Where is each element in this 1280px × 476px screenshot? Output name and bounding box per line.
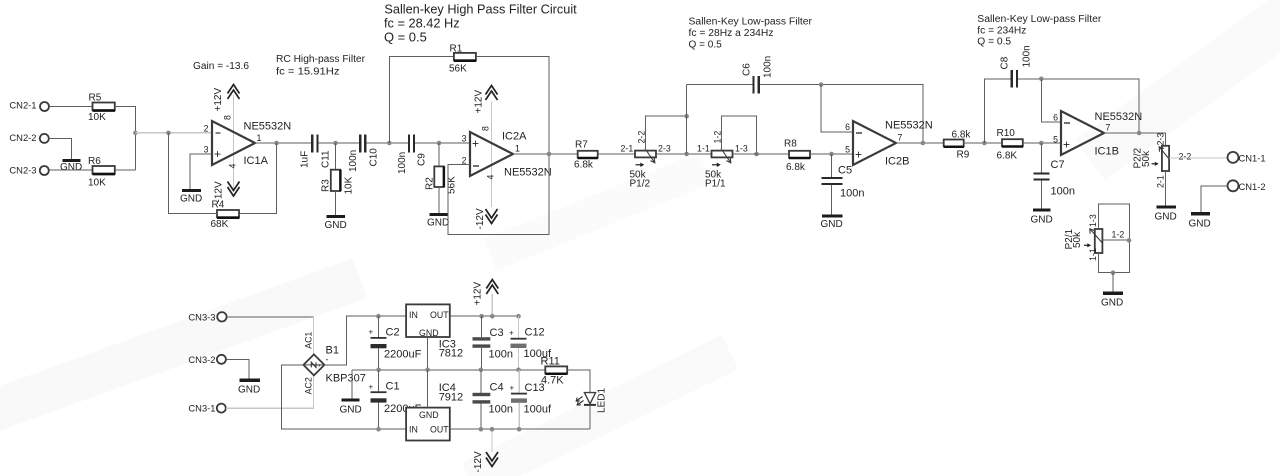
resistor R1 56K: [449, 44, 476, 75]
wire P2/2 bottom to ground: [1165, 171, 1167, 207]
node C13 bottom: [517, 427, 522, 432]
node C1/C2 mid junction: [376, 368, 381, 373]
svg-text:Q = 0.5: Q = 0.5: [689, 40, 723, 51]
svg-text:7: 7: [1106, 123, 1111, 133]
svg-text:C1: C1: [386, 381, 400, 393]
svg-text:Sallen-Key Low-pass Filter: Sallen-Key Low-pass Filter: [689, 17, 813, 28]
capacitor C12 100uf: [509, 327, 552, 361]
ground (R3): [325, 217, 347, 232]
svg-text:fc = 234Hz: fc = 234Hz: [977, 26, 1026, 37]
wire mid ground rail: [352, 369, 545, 371]
svg-text:C2: C2: [386, 327, 400, 339]
svg-text:R3: R3: [321, 179, 332, 192]
svg-text:R5: R5: [89, 93, 102, 104]
svg-text:LED1: LED1: [597, 388, 608, 413]
connector CN2-3: [9, 165, 48, 176]
svg-text:OUT: OUT: [430, 310, 449, 320]
node C6 tap: [684, 152, 689, 157]
connector CN1-2: [1228, 180, 1266, 192]
svg-text:fc = 28Hz a 234Hz: fc = 28Hz a 234Hz: [689, 28, 774, 39]
svg-text:P1/1: P1/1: [705, 179, 726, 190]
svg-text:IC1B: IC1B: [1095, 146, 1119, 158]
resistor R9 6.8k: [944, 130, 972, 161]
svg-text:CN1-2: CN1-2: [1239, 181, 1266, 192]
svg-text:+: +: [472, 137, 479, 151]
resistor R10 6.8K: [997, 128, 1024, 162]
svg-text:+12V: +12V: [474, 90, 485, 114]
wire C2 stem top: [377, 316, 379, 337]
wire IC2B output: [896, 142, 944, 144]
svg-text:50k: 50k: [1072, 231, 1083, 248]
svg-text:C3: C3: [490, 327, 504, 339]
svg-text:6.8k: 6.8k: [574, 160, 594, 171]
ground (C5): [821, 216, 843, 230]
svg-text:1: 1: [515, 144, 520, 154]
wire bridge minus to bottom rail: [282, 365, 407, 429]
wire C6 to IC2B output loop: [760, 85, 923, 143]
svg-text:R6: R6: [88, 156, 101, 167]
svg-text:R7: R7: [575, 140, 588, 151]
wire top rail right: [450, 315, 519, 317]
svg-text:1uF: 1uF: [300, 151, 311, 168]
connector CN3-2: [188, 354, 225, 365]
wire C12 stem: [518, 316, 520, 338]
node IC2A output: [547, 152, 552, 157]
wire C7 to ground: [1040, 181, 1042, 210]
wire C4 to bottom rail: [480, 404, 482, 430]
svg-text:10K: 10K: [344, 176, 355, 194]
node IC2B output: [921, 141, 926, 146]
svg-text:Q = 0.5: Q = 0.5: [384, 30, 427, 45]
wire P2/1 to ground: [1112, 273, 1114, 293]
wire bottom rail right: [450, 428, 590, 430]
potentiometer P1/1 50k: [697, 131, 748, 190]
wire bridge plus to top rail: [324, 316, 406, 365]
potentiometer P1/2 50k: [621, 131, 671, 190]
svg-text:1-2: 1-2: [713, 131, 723, 144]
wire C8 to IC1B output loop: [1018, 79, 1139, 133]
node R2 tap: [437, 141, 442, 146]
wire CN3-2 to ground: [226, 359, 249, 380]
wire LED1 to bottom rail: [589, 405, 591, 429]
wire P2/1 loop: [1099, 204, 1130, 273]
wire P1/1 to R8: [733, 153, 790, 155]
wire CN3-1 to bridge: [226, 375, 314, 408]
node IC GND junction: [425, 368, 430, 373]
node C12/C13 mid junction: [516, 368, 521, 373]
wire R3 to ground: [335, 191, 337, 216]
svg-text:+: +: [317, 363, 321, 370]
svg-text:4: 4: [486, 175, 496, 180]
svg-text:-12V: -12V: [475, 208, 486, 229]
svg-text:3: 3: [204, 145, 209, 155]
node feedback tap: [166, 131, 171, 136]
svg-text:50k: 50k: [1141, 150, 1152, 167]
svg-text:fc = 15.91Hz: fc = 15.91Hz: [276, 67, 340, 78]
wire C1 to bottom rail: [378, 403, 380, 430]
wire IC1A pin3 to ground: [190, 154, 212, 190]
svg-text:CN2-3: CN2-3: [9, 165, 36, 176]
svg-text:10K: 10K: [88, 112, 106, 123]
svg-text:2-3: 2-3: [1156, 133, 1166, 146]
svg-text:+: +: [214, 147, 221, 161]
power +12V (IC1A): [213, 85, 240, 112]
regulator IC3 7812: [406, 304, 463, 359]
svg-text:1: 1: [257, 133, 262, 143]
connector CN2-1: [9, 100, 49, 112]
svg-text:AC2: AC2: [304, 377, 314, 394]
svg-text:7812: 7812: [439, 348, 463, 360]
svg-text:IC2A: IC2A: [502, 131, 527, 143]
svg-text:Q = 0.5: Q = 0.5: [977, 37, 1011, 48]
node C2 top: [376, 314, 381, 319]
wire R8 to IC2B pin5: [810, 153, 853, 155]
wire CN2-1 to R5: [49, 106, 93, 108]
svg-text:100n: 100n: [348, 150, 359, 172]
svg-text:B1: B1: [326, 345, 339, 357]
connector CN2-2: [9, 132, 48, 143]
wire R6 to junction: [115, 169, 136, 171]
svg-text:GND: GND: [821, 219, 843, 230]
node wiper loop junction: [684, 114, 689, 119]
node C3/C4 mid junction: [479, 368, 484, 373]
svg-text:CN3-1: CN3-1: [188, 403, 215, 414]
node C1 bottom: [376, 427, 381, 432]
node P2/1 wiper junction: [1127, 238, 1132, 243]
connector CN1-1: [1228, 152, 1266, 164]
node C7 tap: [1039, 141, 1044, 146]
wire feedback loop to R4: [239, 143, 277, 214]
power -12V (IC1A): [214, 181, 240, 202]
wire C6 branch vertical: [686, 85, 688, 154]
capacitor C4 100n: [473, 382, 513, 416]
svg-text:Sallen-Key Low-pass Filter: Sallen-Key Low-pass Filter: [977, 14, 1102, 25]
svg-text:R11: R11: [541, 356, 560, 368]
wire node to C7: [1040, 143, 1042, 172]
svg-text:IN: IN: [409, 310, 418, 320]
capacitor C11 1uF: [300, 135, 332, 169]
wire CN2-2 to ground: [49, 138, 72, 159]
svg-text:6: 6: [1053, 113, 1058, 123]
power -12V (PSU): [473, 429, 498, 472]
op-amp IC1B: [1053, 111, 1142, 158]
wire CN3-3 to bridge: [227, 316, 314, 318]
wire pin6 branch: [821, 85, 853, 132]
ground (C7): [1031, 210, 1053, 226]
svg-text:100n: 100n: [840, 188, 864, 200]
svg-text:4: 4: [228, 164, 238, 169]
node R3 tap: [333, 141, 338, 146]
svg-text:IC1A: IC1A: [244, 155, 269, 167]
svg-text:Sallen-key High Pass Filter Ci: Sallen-key High Pass Filter Circuit: [384, 2, 577, 17]
svg-text:1-2: 1-2: [1112, 230, 1125, 240]
svg-text:AC1: AC1: [304, 332, 314, 349]
power +12V (IC2A): [474, 86, 498, 114]
svg-text:100n: 100n: [397, 152, 408, 174]
wire R7 to P1/2: [598, 153, 635, 155]
title: Sallen-key High Pass Filter Circuit: [384, 2, 577, 45]
wire R1 to IC2A output node: [476, 57, 549, 154]
resistor R5: [88, 93, 115, 124]
node C12 top: [516, 314, 521, 319]
svg-text:NE5532N: NE5532N: [885, 120, 933, 132]
wire IC4 GND stem: [427, 370, 429, 408]
svg-text:2: 2: [204, 124, 209, 134]
node IC1B output: [1137, 131, 1142, 136]
svg-text:IC2B: IC2B: [885, 156, 909, 168]
capacitor C10 100n: [348, 135, 380, 173]
svg-text:GND: GND: [419, 328, 439, 338]
svg-text:1-3: 1-3: [735, 144, 748, 154]
svg-text:+: +: [369, 383, 374, 392]
node C8 tap: [982, 141, 987, 146]
node C5 tap: [829, 152, 834, 157]
svg-text:C11: C11: [321, 150, 332, 168]
power +12V (PSU): [473, 280, 499, 317]
svg-text:NE5532N: NE5532N: [244, 121, 292, 133]
wire C12 to mid rail: [518, 348, 520, 370]
wire pin6 branch: [1041, 79, 1061, 122]
wire CN1-2 to ground: [1201, 186, 1228, 213]
svg-text:100uf: 100uf: [524, 404, 552, 416]
svg-text:8: 8: [223, 115, 233, 120]
connector CN3-1: [188, 403, 225, 414]
svg-text:C12: C12: [525, 327, 545, 339]
svg-text:1-1: 1-1: [697, 144, 710, 154]
svg-text:+: +: [369, 328, 374, 337]
wire bridge AC1 vertical: [313, 317, 315, 355]
op-amp IC2A: [462, 102, 552, 208]
svg-text:GND: GND: [1189, 219, 1211, 230]
svg-text:GND: GND: [1031, 215, 1053, 226]
wire C8 branch: [984, 79, 1010, 143]
op-amp IC2B: [845, 120, 933, 168]
svg-text:2-2: 2-2: [1179, 152, 1192, 162]
node R1 tap: [387, 141, 392, 146]
svg-text:RC High-pass Filter: RC High-pass Filter: [276, 54, 366, 65]
svg-text:-12V: -12V: [473, 451, 484, 472]
ground (CN1-2): [1189, 214, 1211, 230]
ground (CN2-2): [60, 161, 82, 174]
title: Sallen-Key Low-pass Filter (mid): [689, 17, 813, 51]
wire C6 top rail: [687, 84, 753, 86]
svg-text:1-1: 1-1: [1088, 248, 1098, 261]
LED LED1: [576, 388, 607, 413]
capacitor C7 100n: [1034, 159, 1075, 198]
svg-text:R9: R9: [957, 150, 970, 161]
node -12V stem bottom rail: [490, 427, 495, 432]
wire node up to R1: [389, 57, 454, 143]
wire node to R2: [438, 143, 440, 166]
wire junction to IC1A pin2: [135, 132, 212, 134]
title: RC High-pass Filter: [276, 54, 366, 78]
resistor R7 6.8k: [574, 140, 598, 171]
svg-text:R2: R2: [425, 177, 436, 190]
svg-text:68K: 68K: [211, 219, 229, 230]
svg-text:R4: R4: [212, 200, 225, 211]
svg-text:100n: 100n: [489, 349, 513, 361]
svg-text:C8: C8: [1000, 56, 1011, 69]
svg-text:C6: C6: [742, 63, 753, 76]
svg-text:GND: GND: [419, 410, 439, 420]
svg-text:+: +: [1063, 138, 1070, 152]
wire node to C5: [831, 154, 833, 177]
capacitor C8 100n: [1000, 45, 1033, 87]
node pin6 branch: [819, 82, 824, 87]
capacitor C2 2200uF: [369, 327, 422, 361]
svg-text:56K: 56K: [449, 64, 467, 75]
wire C11 to C10: [319, 142, 360, 144]
svg-text:6: 6: [845, 122, 850, 132]
wire P2/2 wiper to CN1-1: [1169, 157, 1227, 159]
svg-text:C9: C9: [417, 153, 428, 166]
svg-text:2-3: 2-3: [658, 144, 671, 154]
svg-text:2-1: 2-1: [1156, 175, 1166, 188]
wire C2 to mid rail: [377, 348, 379, 370]
potentiometer P2/1 50k: [1064, 214, 1124, 261]
wire C4 stem: [480, 370, 482, 393]
svg-text:3: 3: [462, 134, 467, 144]
svg-text:+: +: [855, 148, 862, 162]
op-amp IC1A: [204, 95, 292, 191]
potentiometer P2/2 50k: [1133, 133, 1192, 188]
capacitor C6 100n: [742, 56, 774, 94]
svg-text:CN3-3: CN3-3: [188, 311, 215, 322]
svg-text:NE5532N: NE5532N: [1095, 111, 1143, 123]
wire IC3 GND stem: [427, 337, 429, 370]
capacitor C13 100uf: [510, 382, 552, 416]
resistor R2 56K: [425, 166, 458, 194]
node C4 bottom: [479, 427, 484, 432]
svg-text:1-3: 1-3: [1088, 214, 1098, 227]
node P2/1 ground junction: [1111, 270, 1116, 275]
svg-text:C4: C4: [490, 382, 504, 394]
svg-text:P1/2: P1/2: [630, 179, 651, 190]
svg-text:10K: 10K: [88, 178, 106, 189]
svg-text:GND: GND: [427, 218, 449, 229]
ground (B1): [340, 370, 362, 416]
svg-text:GND: GND: [325, 220, 347, 231]
svg-text:2-1: 2-1: [621, 144, 634, 154]
svg-text:+: +: [509, 329, 514, 338]
svg-text:CN3-2: CN3-2: [188, 354, 215, 365]
svg-text:GND: GND: [180, 194, 202, 205]
svg-text:+12V: +12V: [473, 282, 484, 306]
svg-text:fc = 28.42 Hz: fc = 28.42 Hz: [384, 16, 460, 31]
svg-text:100n: 100n: [1022, 45, 1033, 67]
svg-text:R1: R1: [450, 44, 463, 55]
wire IC1A output: [255, 142, 311, 144]
wire R4 to pin2 node: [168, 133, 217, 214]
wire C9 to IC2A pin3: [415, 142, 470, 144]
resistor R4 68K: [211, 200, 240, 231]
svg-text:GND: GND: [238, 385, 260, 396]
wire R5 to junction: [115, 107, 136, 171]
svg-text:5: 5: [845, 145, 850, 155]
svg-text:Gain = -13.6: Gain = -13.6: [193, 61, 249, 72]
svg-text:IN: IN: [409, 425, 418, 435]
capacitor C1 2200uF: [369, 381, 422, 416]
ground (R2): [427, 215, 449, 229]
svg-text:4.7K: 4.7K: [541, 375, 564, 387]
wire P2/1 wiper: [1102, 239, 1129, 241]
ground (CN3-2): [238, 380, 260, 395]
node +12V stem top rail: [490, 314, 495, 319]
node IC1B pin6 branch: [1039, 77, 1044, 82]
capacitor C3 100n: [473, 327, 513, 361]
svg-text:GND: GND: [1101, 298, 1123, 309]
svg-text:OUT: OUT: [430, 425, 449, 435]
wire IC1B output to P2/2: [1104, 133, 1166, 146]
wire R11 to LED1: [567, 370, 590, 393]
wire R2 to ground: [438, 187, 440, 214]
svg-text:GND: GND: [340, 405, 362, 416]
resistor R8 6.8k: [784, 139, 810, 174]
wire P1/2 to P1/1: [656, 153, 712, 155]
wire C5 to ground: [831, 185, 833, 215]
svg-text:GND: GND: [1155, 212, 1177, 223]
wire C1 stem top: [378, 370, 380, 392]
svg-text:C7: C7: [1051, 159, 1065, 171]
ground (P2/2): [1155, 207, 1177, 223]
svg-text:6.8K: 6.8K: [997, 151, 1018, 162]
wire C10 to C9: [366, 142, 407, 144]
svg-text:2200uF: 2200uF: [384, 349, 422, 361]
svg-text:6.8k: 6.8k: [952, 130, 972, 141]
wire IC2A pin2 feedback loop: [448, 154, 549, 235]
svg-text:+12V: +12V: [213, 88, 224, 112]
node IC1A output: [274, 141, 279, 146]
svg-text:5: 5: [1053, 135, 1058, 145]
capacitor C5 100n: [822, 165, 865, 200]
svg-text:NE5532N: NE5532N: [504, 167, 552, 179]
svg-text:R10: R10: [997, 128, 1016, 139]
svg-text:8: 8: [481, 126, 491, 131]
resistor R3 10K: [321, 170, 355, 195]
wire IC2A output: [513, 153, 578, 155]
connector CN3-3: [188, 311, 226, 322]
regulator IC4 7912: [406, 382, 463, 441]
node input junction: [133, 131, 138, 136]
title: Sallen-Key Low-pass Filter (right): [977, 14, 1102, 48]
svg-text:R8: R8: [784, 139, 797, 150]
resistor R11 4.7K: [541, 356, 568, 387]
svg-text:100n: 100n: [489, 404, 513, 416]
resistor R6: [88, 156, 115, 189]
wire R10 to IC1B pin5: [1023, 142, 1061, 144]
ground (P2/1): [1101, 293, 1123, 308]
svg-text:CN2-2: CN2-2: [9, 132, 36, 143]
bridge rectifier B1 KBP307: [303, 332, 365, 395]
wire P1/1 wiper loop: [722, 116, 757, 154]
wire C13 to bottom rail: [518, 403, 520, 429]
svg-text:GND: GND: [60, 162, 82, 173]
node P1/1 loop junction: [754, 152, 759, 157]
svg-text:+: +: [510, 384, 515, 393]
wire C13 stem: [518, 370, 520, 393]
wire C3 stem: [481, 316, 483, 337]
svg-text:C5: C5: [838, 165, 852, 177]
svg-text:7: 7: [898, 133, 903, 143]
svg-text:7912: 7912: [439, 392, 463, 404]
node C3 top: [479, 314, 484, 319]
wire P1/2 wiper loop: [646, 116, 687, 150]
ground (IC1A): [180, 191, 202, 205]
wire node to R3: [335, 143, 337, 170]
power -12V (IC2A): [475, 208, 498, 229]
capacitor C9 100n: [397, 135, 428, 175]
wire C3 to mid rail: [481, 348, 483, 370]
